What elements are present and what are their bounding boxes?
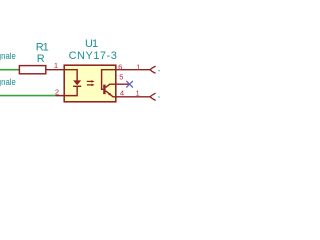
- svg-text:6: 6: [118, 63, 122, 72]
- svg-text:4: 4: [120, 89, 124, 98]
- emitter arrowhead: [108, 93, 111, 96]
- connector pin chevron (bottom right): [150, 93, 155, 100]
- svg-text:CNY17-3: CNY17-3: [69, 50, 118, 62]
- resistor R1: [19, 66, 45, 74]
- light arrow 1: [87, 80, 92, 82]
- LED cathode line to pin 2: [55, 86, 77, 95]
- svg-text:Signale: Signale: [0, 77, 16, 87]
- wire net 1 (left top, green): [0, 69, 19, 71]
- transistor emitter to pin 4 wire out: [106, 91, 150, 97]
- wire net 2 (left bottom, green): [0, 95, 55, 97]
- teal text fragment (bottom right edge): [158, 96, 159, 97]
- svg-text:2: 2: [55, 87, 59, 96]
- light arrow 2: [87, 84, 92, 86]
- svg-text:1: 1: [54, 61, 58, 70]
- wire resistor to U1 pin 1 + LED anode feed: [46, 70, 77, 81]
- no-connect X on pin 5: [126, 81, 133, 88]
- connector pin chevron (top right): [150, 66, 155, 73]
- svg-text:1: 1: [135, 88, 139, 97]
- transistor base bar: [103, 85, 105, 95]
- svg-text:R: R: [37, 53, 45, 65]
- teal text fragment (top right edge): [158, 70, 159, 71]
- optocoupler U1 body box: [64, 65, 116, 102]
- svg-text:5: 5: [119, 73, 123, 82]
- svg-text:R1: R1: [36, 42, 49, 54]
- svg-text:1: 1: [136, 63, 140, 72]
- transistor collector to pin 5 stub: [106, 84, 130, 87]
- LED triangle (inside U1): [73, 80, 81, 85]
- LED cathode bar: [73, 85, 81, 87]
- svg-text:U1: U1: [85, 38, 98, 50]
- wire U1 pin 6 out + base feed: [102, 70, 150, 90]
- svg-text:Signale: Signale: [0, 51, 16, 61]
